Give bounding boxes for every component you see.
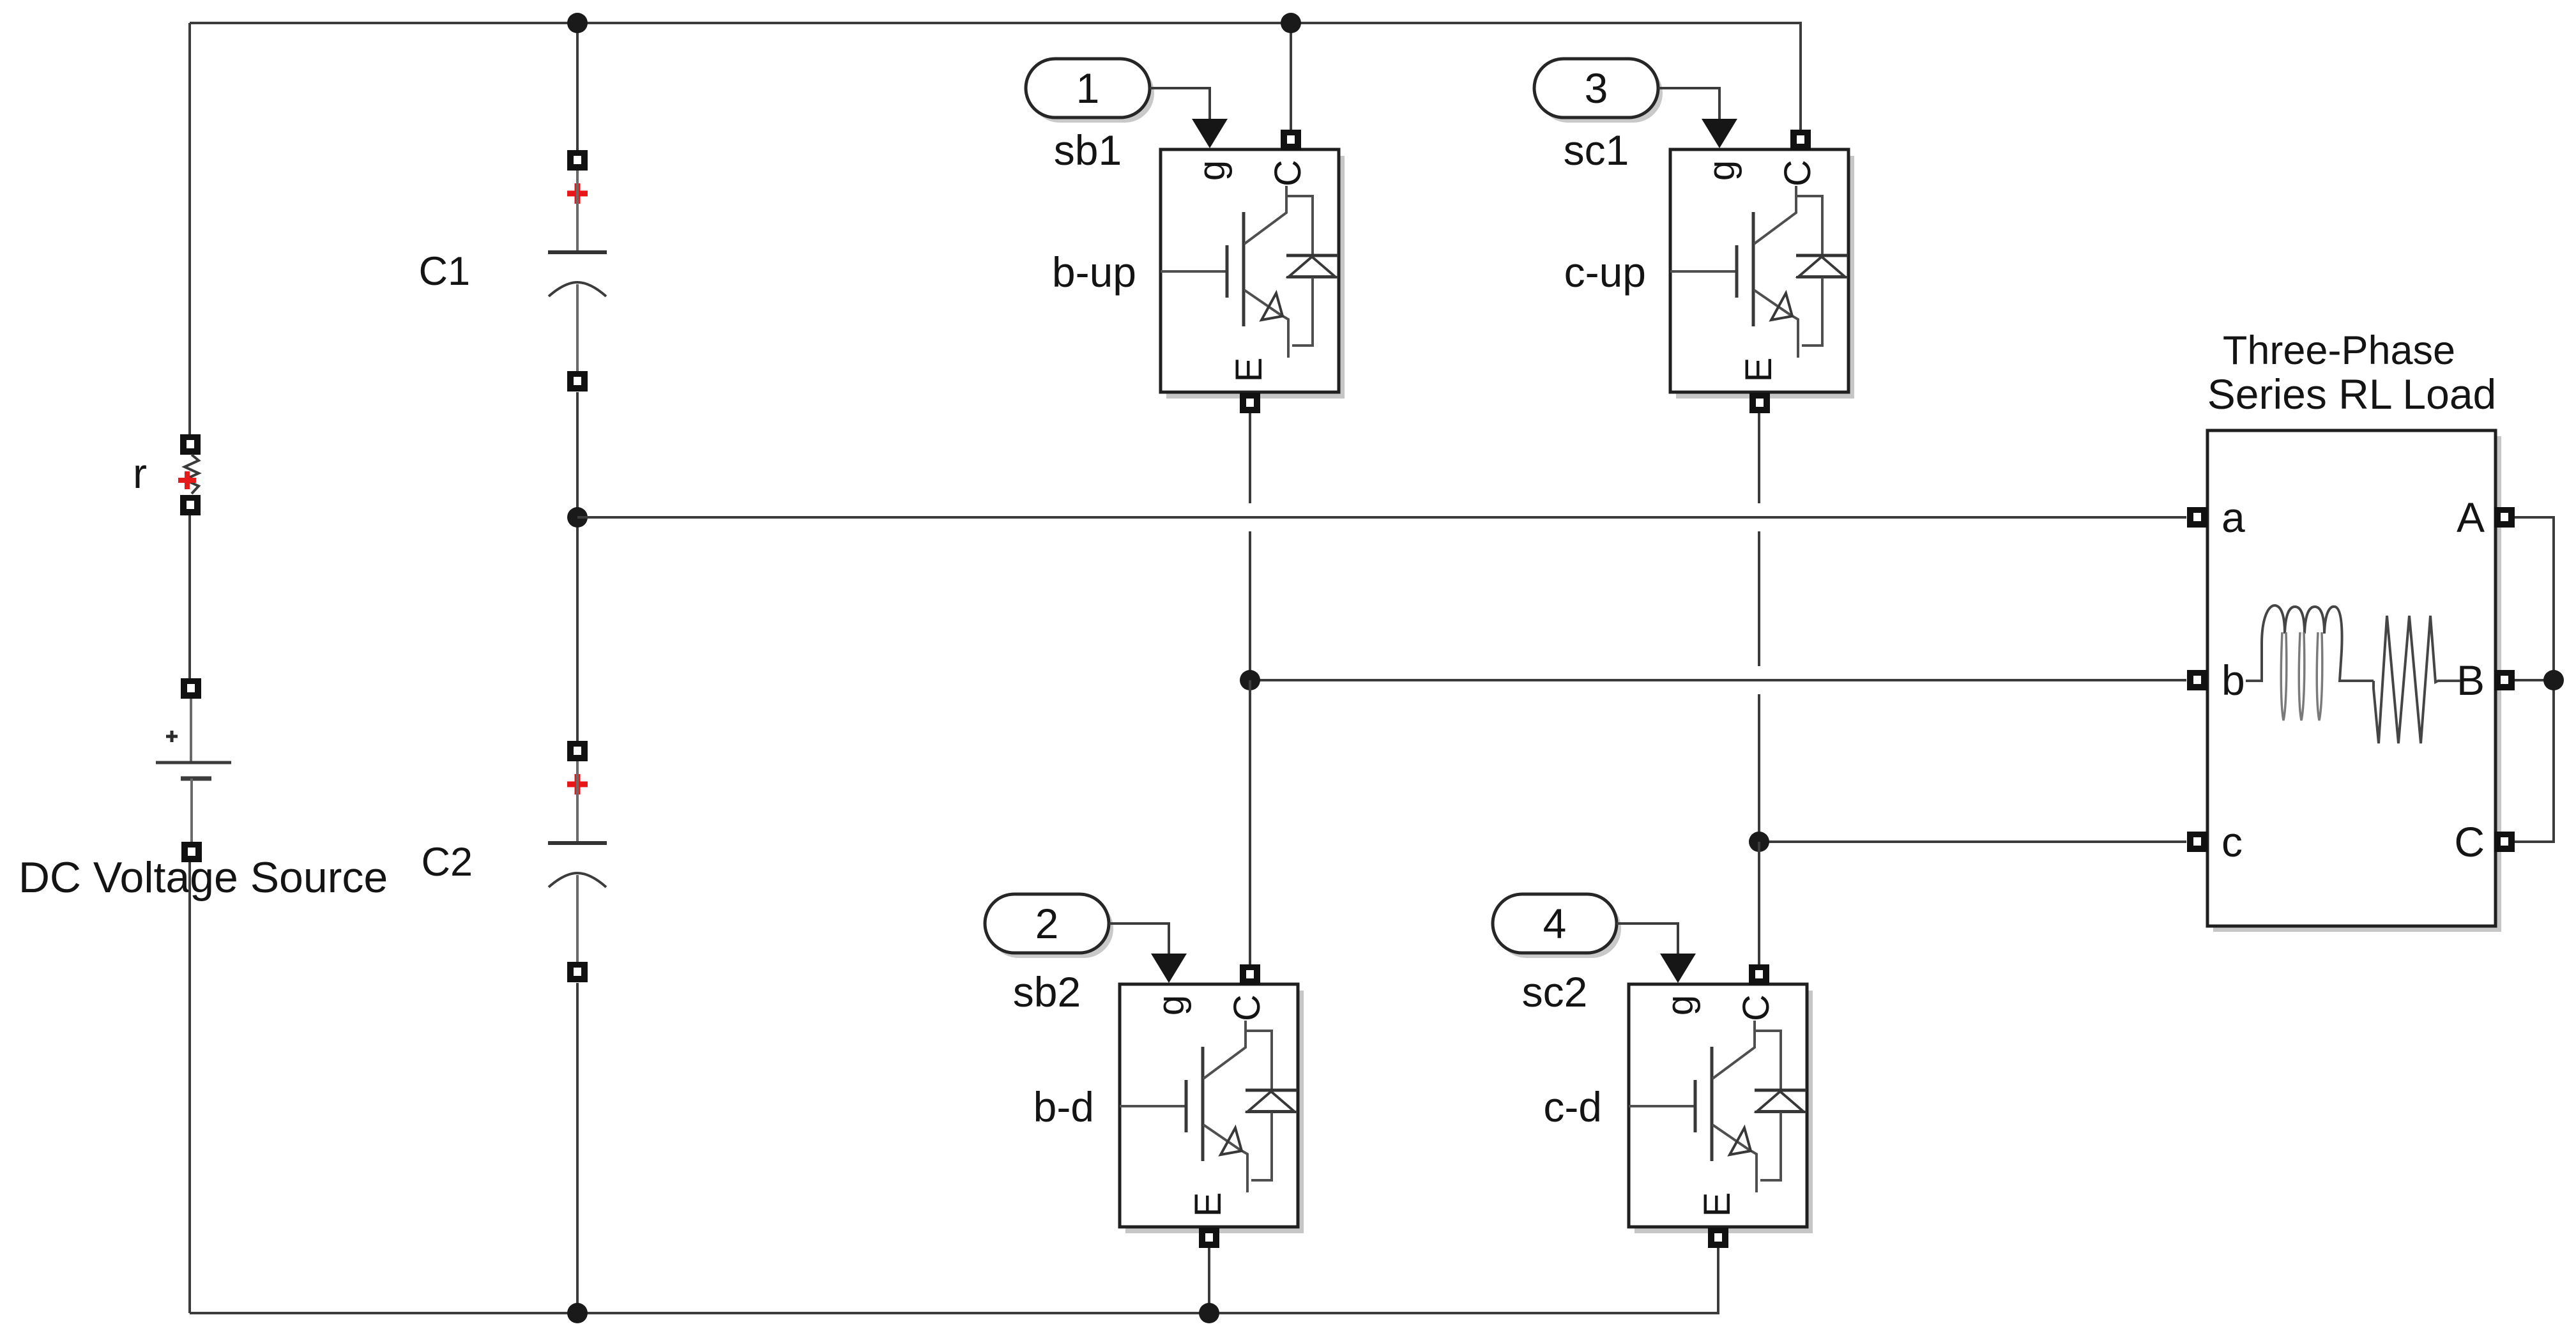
wire: r to battery xyxy=(188,515,191,678)
port a xyxy=(2187,507,2207,528)
wire: battery to bottom bus xyxy=(188,862,191,1313)
wire: bottom DC- bus xyxy=(190,1248,1718,1313)
port C xyxy=(2494,832,2515,852)
port c xyxy=(2187,832,2207,852)
svg-text:c-up: c-up xyxy=(1564,248,1646,296)
inductor L (load icon) xyxy=(2246,605,2374,720)
svg-text:C2: C2 xyxy=(421,840,473,885)
wire: left DC+ riser xyxy=(188,23,191,434)
inport 3 xyxy=(1534,59,1663,123)
svg-text:Series RL Load: Series RL Load xyxy=(2207,370,2497,418)
wire: A to right bus xyxy=(2515,517,2554,842)
wire: inport 2 to sb2 gate xyxy=(1109,924,1169,956)
svg-text:A: A xyxy=(2457,494,2485,541)
svg-text:sc2: sc2 xyxy=(1522,968,1588,1015)
wire: phase b xyxy=(1250,679,2186,681)
wire: cap leg bottom xyxy=(576,983,579,1313)
wire: phase c xyxy=(1759,840,2186,843)
svg-text:DC Voltage Source: DC Voltage Source xyxy=(19,853,388,902)
junction: top bus / cap leg xyxy=(567,13,588,33)
wire: B to right bus xyxy=(2515,679,2554,681)
svg-text:1: 1 xyxy=(1076,65,1100,112)
svg-text:c-d: c-d xyxy=(1543,1083,1602,1130)
junction: bottom bus / sb2 emitter xyxy=(1199,1303,1219,1323)
inport 1 xyxy=(1026,59,1154,123)
resistor R (load icon) xyxy=(2374,616,2460,743)
junction: phase a tap xyxy=(567,507,588,528)
capacitor C1 xyxy=(548,150,607,392)
IGBT sc2 xyxy=(1629,954,1813,1248)
resistor r xyxy=(178,434,201,515)
svg-text:sc1: sc1 xyxy=(1564,126,1629,174)
wire: inport 3 to sc1 gate xyxy=(1659,88,1719,121)
Three-Phase Series RL Load block xyxy=(2207,430,2501,932)
IGBT sc1 xyxy=(1670,119,1854,413)
wire: sb leg lower (phase b to C of sb2) xyxy=(1249,680,1251,964)
wire: inport 4 to sc2 gate xyxy=(1617,924,1678,956)
inport 2 xyxy=(985,894,1113,958)
inport 4 xyxy=(1493,894,1621,958)
svg-text:b-up: b-up xyxy=(1052,248,1136,296)
svg-text:2: 2 xyxy=(1035,900,1059,947)
IGBT sb1 xyxy=(1161,119,1345,413)
svg-text:B: B xyxy=(2457,657,2485,704)
junction: right bus / B xyxy=(2543,670,2564,690)
svg-text:b-d: b-d xyxy=(1033,1083,1094,1130)
svg-text:b: b xyxy=(2222,657,2245,704)
svg-text:a: a xyxy=(2222,494,2245,541)
wire: top DC+ bus xyxy=(190,23,1801,130)
port A xyxy=(2494,507,2515,528)
junction: bottom bus / cap leg xyxy=(567,1303,588,1323)
wire: cap leg middle xyxy=(576,392,579,741)
capacitor C2 xyxy=(548,741,607,982)
svg-text:r: r xyxy=(133,450,147,497)
port B xyxy=(2494,670,2515,690)
junction: phase c tap xyxy=(1749,832,1769,852)
wire: sb leg upper (E of sb1 to phase b) xyxy=(1249,413,1251,680)
wire: inport 1 to sb1 gate xyxy=(1150,88,1210,121)
svg-text:C1: C1 xyxy=(418,249,470,294)
DC voltage source battery xyxy=(156,678,231,862)
junction: top bus / sb1 collector xyxy=(1281,13,1301,33)
wire: sb1 collector drop xyxy=(1290,23,1292,130)
svg-text:4: 4 xyxy=(1543,900,1567,947)
wire: sb2 emitter to bottom bus xyxy=(1208,1247,1210,1313)
wire: sc leg lower (phase c to C of sc2) xyxy=(1758,842,1760,964)
svg-text:3: 3 xyxy=(1585,65,1608,112)
svg-text:sb2: sb2 xyxy=(1013,968,1081,1015)
IGBT sb2 xyxy=(1120,954,1304,1248)
svg-text:c: c xyxy=(2222,818,2243,865)
wire: cap leg top xyxy=(576,23,579,150)
wire: phase a xyxy=(577,516,2186,519)
svg-text:C: C xyxy=(2454,818,2485,865)
wire: sc leg upper (E of sc1 down) xyxy=(1758,413,1760,842)
junction: phase b tap xyxy=(1240,670,1260,690)
svg-text:Three-Phase: Three-Phase xyxy=(2223,328,2455,373)
port b xyxy=(2187,670,2207,690)
svg-text:sb1: sb1 xyxy=(1054,126,1122,174)
